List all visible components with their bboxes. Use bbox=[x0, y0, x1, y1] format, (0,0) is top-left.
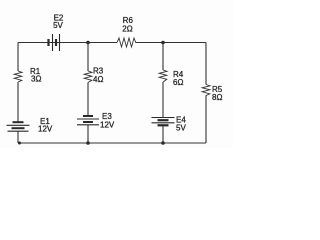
svg-text:2Ω: 2Ω bbox=[122, 25, 132, 34]
svg-text:12V: 12V bbox=[100, 121, 115, 130]
svg-text:12V: 12V bbox=[38, 125, 53, 134]
svg-text:6Ω: 6Ω bbox=[173, 78, 183, 87]
svg-text:3Ω: 3Ω bbox=[31, 75, 41, 84]
svg-text:8Ω: 8Ω bbox=[212, 93, 222, 102]
svg-text:4Ω: 4Ω bbox=[93, 75, 103, 84]
svg-text:5V: 5V bbox=[176, 124, 186, 133]
svg-text:5V: 5V bbox=[53, 21, 63, 30]
